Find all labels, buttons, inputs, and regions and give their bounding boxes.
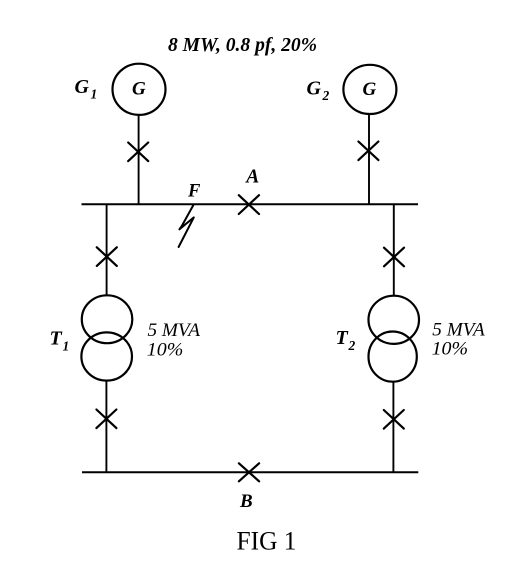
svg-text:A: A [244, 167, 259, 188]
label G1 [75, 76, 98, 102]
top bus wire [82, 203, 419, 205]
label G2 [307, 78, 330, 104]
label T2 [336, 327, 356, 353]
svg-text:B: B [239, 491, 253, 512]
svg-text:F: F [187, 181, 201, 201]
wire: right branch upper (top bus to T2) [393, 204, 395, 297]
value label T1: 5 MVA 10% [147, 320, 201, 360]
svg-text:10%: 10% [432, 339, 469, 360]
label B (node B) [239, 491, 253, 512]
svg-text:5 MVA: 5 MVA [432, 320, 485, 341]
svg-text:T: T [50, 328, 63, 350]
svg-text:G: G [363, 79, 377, 100]
wire: right branch lower (T2 to bottom bus) [392, 381, 394, 472]
svg-text:5 MVA: 5 MVA [148, 320, 201, 341]
breaker X on left branch lower [96, 410, 116, 429]
generator G2 (circle with G) [343, 65, 396, 114]
svg-text:G: G [307, 78, 322, 100]
breaker X on G1 stem [128, 143, 148, 162]
breaker A on top bus [239, 195, 259, 214]
svg-text:G: G [75, 76, 90, 98]
breaker X on right branch upper [384, 248, 404, 267]
fault label F [187, 181, 201, 201]
svg-text:1: 1 [63, 339, 70, 354]
svg-text:8 MW, 0.8 pf, 20%: 8 MW, 0.8 pf, 20% [168, 35, 317, 56]
svg-text:1: 1 [91, 87, 98, 102]
svg-text:2: 2 [348, 338, 356, 353]
wire: left branch upper (top bus to T1) [106, 204, 108, 296]
wire: left branch lower (T1 to bottom bus) [105, 380, 107, 472]
value label T2: 5 MVA 10% [432, 320, 486, 360]
transformer T2 (two overlapping circles) [369, 296, 420, 382]
wire: G2 stem to top bus [368, 113, 370, 204]
bottom bus wire [82, 471, 418, 473]
generator G1 (circle with G) [113, 64, 166, 115]
label A (node A) [244, 167, 259, 188]
caption FIG 1 [237, 525, 297, 555]
breaker X on left branch upper [97, 247, 117, 266]
load value label: 8 MW, 0.8 pf, 20% [168, 35, 317, 56]
svg-text:G: G [132, 79, 146, 100]
svg-text:FIG 1: FIG 1 [237, 525, 297, 555]
fault lightning symbol [179, 205, 194, 247]
transformer T1 (two overlapping circles) [81, 295, 132, 380]
svg-text:T: T [336, 327, 349, 349]
svg-text:10%: 10% [147, 340, 184, 361]
breaker B on bottom bus [239, 463, 259, 481]
breaker X on G2 stem [358, 142, 378, 161]
wire: G1 stem to top bus [138, 115, 140, 205]
svg-text:2: 2 [322, 88, 330, 103]
label T1 [50, 328, 70, 354]
breaker X on right branch lower [384, 410, 404, 429]
